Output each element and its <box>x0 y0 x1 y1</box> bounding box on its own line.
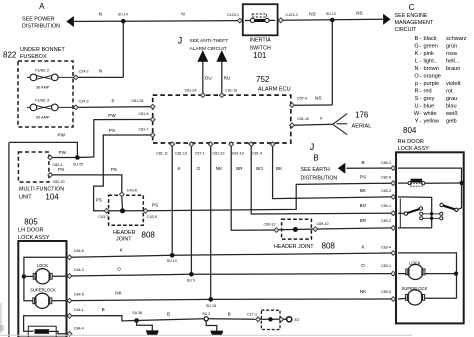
svg-text:SU 14: SU 14 <box>118 12 128 16</box>
svg-text:-: - <box>420 119 422 125</box>
svg-text:SU 3: SU 3 <box>202 312 210 316</box>
svg-text:BO: BO <box>256 166 263 171</box>
svg-text:SU 36: SU 36 <box>132 311 142 315</box>
svg-text:BK: BK <box>276 166 283 171</box>
svg-text:blue: blue <box>424 104 435 110</box>
svg-text:B: B <box>313 154 318 163</box>
svg-text:LOCK ASSY: LOCK ASSY <box>18 235 50 241</box>
svg-text:176: 176 <box>355 111 369 120</box>
svg-text:BR: BR <box>236 166 243 171</box>
svg-text:yellow: yellow <box>424 119 441 125</box>
svg-text:UNDER BONNET: UNDER BONNET <box>20 47 65 53</box>
svg-text:804: 804 <box>403 126 417 135</box>
svg-text:SEE EARTH: SEE EARTH <box>301 167 331 173</box>
svg-text:30 AMP: 30 AMP <box>36 114 50 119</box>
svg-text:violett: violett <box>446 81 461 87</box>
svg-text:C81-4: C81-4 <box>252 151 262 155</box>
svg-text:N: N <box>414 66 418 72</box>
svg-text:-: - <box>420 111 422 117</box>
svg-text:C81-19: C81-19 <box>232 151 244 155</box>
svg-text:C69-10: C69-10 <box>316 222 328 226</box>
svg-text:N: N <box>99 11 102 16</box>
svg-text:PW: PW <box>59 150 67 155</box>
svg-text:-: - <box>420 96 422 102</box>
svg-text:C84-5: C84-5 <box>74 293 84 297</box>
svg-text:OU: OU <box>205 75 212 80</box>
svg-text:SEE ANTI-THEFT: SEE ANTI-THEFT <box>190 38 229 44</box>
svg-text:UNIT: UNIT <box>19 195 32 201</box>
svg-text:PS: PS <box>111 167 117 172</box>
svg-text:PS: PS <box>152 202 158 207</box>
svg-text:B: B <box>102 307 105 312</box>
svg-text:C43-9: C43-9 <box>147 215 157 219</box>
svg-text:PS: PS <box>58 167 64 172</box>
svg-text:C83-4: C83-4 <box>381 245 391 249</box>
svg-text:SUPERLOCK: SUPERLOCK <box>402 286 428 291</box>
svg-text:808: 808 <box>142 231 156 240</box>
svg-text:FUSEBOX: FUSEBOX <box>20 54 47 60</box>
svg-text:INERTIA: INERTIA <box>250 38 272 44</box>
svg-text:R: R <box>414 89 418 95</box>
svg-text:white: white <box>423 111 437 117</box>
svg-text:SUPERLOCK: SUPERLOCK <box>30 288 56 293</box>
svg-text:BR: BR <box>360 218 367 223</box>
svg-text:C81-11: C81-11 <box>156 151 168 155</box>
svg-text:grün: grün <box>446 44 457 50</box>
svg-text:C84-6: C84-6 <box>74 249 84 253</box>
svg-text:SU 9: SU 9 <box>187 279 195 283</box>
svg-text:HEADER: HEADER <box>113 230 136 236</box>
svg-text:L: L <box>415 59 418 65</box>
svg-text:CIRCUIT: CIRCUIT <box>395 27 418 33</box>
svg-text:SU 18: SU 18 <box>206 304 216 308</box>
svg-text:SEE ENGINE: SEE ENGINE <box>395 13 428 19</box>
svg-text:-: - <box>420 51 422 57</box>
svg-text:C123-3: C123-3 <box>285 13 297 17</box>
svg-text:O: O <box>197 166 201 171</box>
svg-text:A: A <box>39 2 45 11</box>
svg-text:RU: RU <box>224 75 231 80</box>
svg-text:C: C <box>409 3 415 12</box>
svg-text:C123-1: C123-1 <box>227 13 239 17</box>
svg-text:-: - <box>420 44 422 50</box>
svg-text:black: black <box>424 36 437 42</box>
svg-text:E2: E2 <box>295 317 301 322</box>
svg-text:NS: NS <box>309 11 315 16</box>
svg-text:C84-1: C84-1 <box>74 308 84 312</box>
svg-text:PS: PS <box>360 175 366 180</box>
svg-text:schwarz: schwarz <box>446 36 467 42</box>
svg-text:PS: PS <box>96 198 102 203</box>
svg-text:C83-3: C83-3 <box>381 189 391 193</box>
svg-text:weiß: weiß <box>445 111 458 117</box>
svg-text:C83-2: C83-2 <box>381 219 391 223</box>
svg-text:light..: light.. <box>424 59 438 65</box>
svg-text:AERIAL: AERIAL <box>352 124 372 130</box>
svg-text:C82-20: C82-20 <box>53 180 65 184</box>
svg-text:C24-2: C24-2 <box>79 69 89 73</box>
svg-text:Y: Y <box>320 116 323 121</box>
svg-text:B: B <box>361 160 364 165</box>
svg-text:C24-3: C24-3 <box>79 99 89 103</box>
svg-text:C82-4: C82-4 <box>53 163 63 167</box>
svg-text:PW: PW <box>108 113 116 118</box>
svg-text:LOCK ASSY: LOCK ASSY <box>398 146 430 152</box>
svg-text:J: J <box>178 35 183 45</box>
svg-text:G: G <box>414 44 418 50</box>
svg-text:C57-1: C57-1 <box>195 151 205 155</box>
svg-text:NS: NS <box>356 11 362 16</box>
svg-text:J: J <box>310 142 315 152</box>
svg-text:C90-1: C90-1 <box>381 204 391 208</box>
svg-text:C43-8: C43-8 <box>127 189 137 193</box>
svg-text:orange: orange <box>424 74 441 80</box>
svg-text:FUSE 3: FUSE 3 <box>35 97 49 102</box>
svg-text:JOINT: JOINT <box>116 237 132 243</box>
svg-text:30 AMP: 30 AMP <box>36 84 50 89</box>
svg-text:O: O <box>117 266 121 271</box>
svg-text:C81-6: C81-6 <box>138 112 148 116</box>
svg-text:PS: PS <box>109 128 115 133</box>
svg-text:104: 104 <box>45 193 59 202</box>
svg-text:S: S <box>415 96 419 102</box>
svg-text:-: - <box>420 66 422 72</box>
svg-text:C81-26: C81-26 <box>131 99 143 103</box>
svg-text:C83-5: C83-5 <box>381 290 391 294</box>
svg-text:-: - <box>420 74 422 80</box>
svg-text:LOCK: LOCK <box>409 260 421 265</box>
svg-text:NK: NK <box>115 291 122 296</box>
svg-text:Y: Y <box>415 119 419 125</box>
svg-text:P: P <box>111 99 114 104</box>
svg-text:NK: NK <box>360 289 367 294</box>
svg-text:rosa: rosa <box>446 51 458 57</box>
svg-text:BK: BK <box>360 188 367 193</box>
svg-text:purple: purple <box>424 81 440 87</box>
svg-text:C43-7: C43-7 <box>98 215 108 219</box>
svg-text:SU 10: SU 10 <box>167 259 177 263</box>
svg-text:gelb: gelb <box>446 119 457 125</box>
svg-text:MULTI FUNCTION: MULTI FUNCTION <box>19 186 64 192</box>
svg-text:brown: brown <box>424 66 439 72</box>
svg-text:C81-7: C81-7 <box>138 127 148 131</box>
svg-text:-: - <box>420 36 422 42</box>
svg-text:C57-9: C57-9 <box>297 97 307 101</box>
svg-text:NS: NS <box>315 96 321 101</box>
svg-text:C69-12: C69-12 <box>263 222 275 226</box>
svg-text:RH DOOR: RH DOOR <box>398 139 424 145</box>
svg-text:FUSE 2: FUSE 2 <box>35 67 49 72</box>
svg-text:C83-1: C83-1 <box>381 264 391 268</box>
svg-text:B: B <box>415 36 419 42</box>
svg-text:hell...: hell... <box>446 59 460 65</box>
svg-text:green: green <box>424 44 438 50</box>
svg-text:blau: blau <box>446 104 457 110</box>
svg-text:braun: braun <box>446 66 460 72</box>
svg-text:HEADER JOINT: HEADER JOINT <box>274 244 314 250</box>
svg-text:C84-4: C84-4 <box>74 327 84 331</box>
svg-text:red: red <box>424 89 432 95</box>
svg-text:-: - <box>420 81 422 87</box>
svg-text:752: 752 <box>256 75 270 84</box>
svg-text:SEE POWER: SEE POWER <box>22 17 55 23</box>
svg-text:K: K <box>415 51 419 57</box>
svg-text:C81-22: C81-22 <box>212 151 224 155</box>
svg-text:U: U <box>414 104 418 110</box>
svg-text:LH DOOR: LH DOOR <box>18 228 44 234</box>
svg-text:C81-13: C81-13 <box>175 151 187 155</box>
svg-text:p: p <box>415 81 418 87</box>
svg-text:101: 101 <box>253 51 267 60</box>
svg-text:C81-24: C81-24 <box>184 89 196 93</box>
svg-text:O: O <box>361 263 365 268</box>
svg-text:pink: pink <box>424 51 434 57</box>
svg-text:-: - <box>420 59 422 65</box>
svg-text:SU 13: SU 13 <box>326 12 336 16</box>
svg-text:B: B <box>167 312 170 317</box>
svg-text:NK: NK <box>216 166 223 171</box>
svg-text:BO: BO <box>360 203 367 208</box>
svg-text:ALARM CIRCUIT: ALARM CIRCUIT <box>190 46 227 52</box>
svg-text:C17-1: C17-1 <box>247 313 257 317</box>
svg-text:DISTRIBUTION: DISTRIBUTION <box>301 175 338 181</box>
svg-text:C82-6: C82-6 <box>381 176 391 180</box>
svg-text:SU 25: SU 25 <box>73 163 83 167</box>
svg-text:-: - <box>420 104 422 110</box>
svg-text:C84-3: C84-3 <box>74 268 84 272</box>
svg-text:-: - <box>420 89 422 95</box>
svg-text:rot: rot <box>446 89 453 95</box>
svg-text:C81-16: C81-16 <box>225 89 237 93</box>
svg-text:DISTRIBUTION: DISTRIBUTION <box>22 23 60 29</box>
svg-text:C80-2: C80-2 <box>381 161 391 165</box>
svg-text:O: O <box>414 74 419 80</box>
svg-text:822: 822 <box>3 51 17 60</box>
svg-text:grau: grau <box>446 96 457 102</box>
svg-text:C81-10: C81-10 <box>297 117 309 121</box>
svg-text:PW: PW <box>58 133 66 138</box>
svg-text:N: N <box>181 11 184 16</box>
svg-text:MANAGEMENT: MANAGEMENT <box>395 20 434 26</box>
svg-text:808: 808 <box>322 242 336 251</box>
svg-text:N: N <box>99 68 102 73</box>
svg-text:grey: grey <box>424 96 435 102</box>
svg-text:LOCK: LOCK <box>37 263 49 268</box>
svg-text:805: 805 <box>24 218 38 227</box>
svg-text:ALARM ECU: ALARM ECU <box>258 87 291 93</box>
svg-text:B: B <box>228 312 231 317</box>
